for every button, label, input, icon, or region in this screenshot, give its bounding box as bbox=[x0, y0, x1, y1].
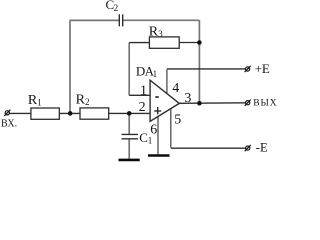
svg-text:1: 1 bbox=[37, 97, 42, 107]
resistor R2 bbox=[80, 108, 109, 119]
wire pin 5 down bbox=[170, 109, 172, 148]
svg-text:3: 3 bbox=[158, 29, 163, 39]
wire C1 to ground 1 bbox=[128, 139, 130, 159]
junction dot R3/feedback node bbox=[197, 40, 202, 45]
wire output pin 3 to terminal bbox=[179, 102, 245, 105]
terminal output bbox=[245, 100, 251, 106]
wire left vertical down to R1/R2 node bbox=[69, 20, 71, 113]
resistor R1 bbox=[31, 108, 59, 119]
junction dot R2/C1/pin2 node bbox=[127, 111, 132, 116]
svg-text:ВЫХ: ВЫХ bbox=[253, 99, 277, 109]
wire R3 right to feedback node bbox=[179, 42, 199, 44]
svg-text:1: 1 bbox=[140, 84, 147, 99]
wire +E horizontal bbox=[167, 68, 246, 70]
svg-text:C: C bbox=[139, 130, 148, 145]
wire vertical from node down to C1 bbox=[128, 113, 130, 134]
svg-text:-E: -E bbox=[256, 140, 268, 154]
wire -E horizontal bbox=[171, 147, 246, 149]
svg-text:1: 1 bbox=[153, 69, 158, 79]
svg-text:4: 4 bbox=[172, 81, 179, 96]
wire R1 to R2 bbox=[59, 112, 80, 114]
wire pin 1 horizontal into op-amp bbox=[129, 94, 150, 96]
capacitor C1 plates bbox=[122, 134, 139, 138]
wire pin 4 up bbox=[166, 70, 168, 94]
svg-text:5: 5 bbox=[174, 113, 181, 128]
wire vertical from R3 left down to pin 1 bbox=[128, 43, 130, 96]
svg-text:ВХ.: ВХ. bbox=[1, 119, 17, 130]
ground 2 (under pin 6) bbox=[148, 154, 170, 157]
wire top feedback net right segment bbox=[123, 19, 199, 21]
wire top feedback net left segment bbox=[70, 19, 119, 21]
resistor R3 bbox=[149, 37, 179, 48]
terminal -E bbox=[245, 145, 251, 151]
input terminal bbox=[4, 110, 10, 116]
svg-text:+E: +E bbox=[255, 61, 270, 76]
wire right vertical feedback down to output node bbox=[198, 20, 200, 103]
junction dot output node bbox=[197, 101, 202, 106]
svg-text:2: 2 bbox=[139, 100, 146, 115]
op-amp minus input mark bbox=[155, 96, 159, 98]
svg-text:2: 2 bbox=[114, 3, 119, 13]
svg-text:3: 3 bbox=[184, 91, 191, 106]
ground 1 (under C1) bbox=[119, 159, 140, 162]
wire input terminal to R1 bbox=[9, 112, 31, 114]
op-amp DA1 triangle bbox=[150, 80, 179, 121]
terminal +E bbox=[245, 66, 251, 72]
junction dot R1/R2 node bbox=[68, 111, 73, 116]
wire R2 to op-amp pin 2 bbox=[109, 112, 151, 114]
capacitor C2 plates bbox=[119, 14, 122, 26]
svg-text:2: 2 bbox=[85, 97, 90, 107]
op-amp plus input mark bbox=[154, 110, 161, 112]
wire R3 left bbox=[129, 42, 149, 44]
svg-text:6: 6 bbox=[150, 123, 157, 138]
wire pin 6 down to ground 2 bbox=[157, 117, 159, 155]
